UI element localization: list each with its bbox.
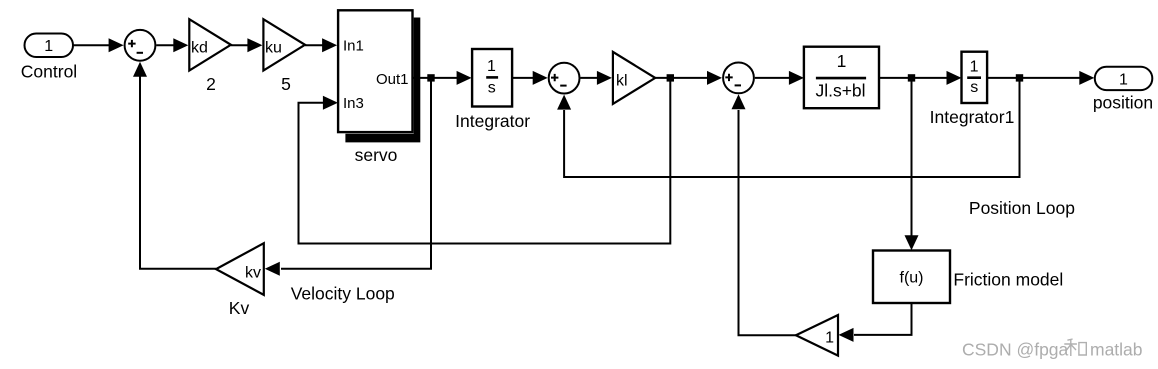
sum Sum2	[549, 63, 580, 94]
svg-text:1: 1	[825, 330, 834, 347]
wire Integrator to Sum2	[512, 77, 534, 79]
wire gain 1 output left and up to Sum3	[739, 110, 796, 335]
svg-text:kd: kd	[191, 39, 208, 56]
wire kd to gain ku	[231, 44, 249, 46]
svg-text:In3: In3	[343, 95, 364, 112]
arrowhead into outport	[1079, 71, 1094, 85]
wire In3 feedback: kl output down, left, up into servo In3	[299, 81, 671, 244]
svg-text:Friction model: Friction model	[953, 269, 1063, 289]
arrowhead into Sum1	[109, 38, 124, 52]
svg-text:s: s	[970, 79, 978, 96]
svg-text:Integrator: Integrator	[455, 111, 530, 131]
junction at kl output	[667, 74, 674, 81]
svg-text:f(u): f(u)	[900, 270, 924, 287]
gain ku	[263, 19, 305, 70]
subsystem servo (with drop shadow)	[338, 10, 420, 142]
svg-text:matlab: matlab	[1090, 339, 1143, 359]
gain kl	[613, 52, 655, 104]
arrowhead into Sum2 bottom	[557, 95, 571, 110]
wire Sum2 to gain kl	[580, 77, 599, 79]
wire f(u) output down and left to gain 1	[854, 303, 912, 335]
wire Sum3 to transfer fn	[755, 77, 790, 79]
svg-text:position: position	[1093, 92, 1153, 112]
svg-text:1: 1	[1119, 71, 1128, 88]
svg-text:s: s	[488, 79, 496, 96]
gain 1 (flipped)	[796, 315, 838, 356]
arrowhead into ku	[247, 38, 262, 52]
transfer function 1/(Jl.s+bl)	[804, 47, 879, 108]
svg-text:servo: servo	[355, 145, 398, 165]
svg-text:kl: kl	[616, 72, 628, 89]
fcn block f(u)	[873, 251, 950, 304]
integrator Integrator1	[962, 52, 988, 103]
arrowhead into transfer fn	[789, 71, 804, 85]
arrowhead into kl	[597, 71, 612, 85]
arrowhead into Sum2	[533, 71, 548, 85]
svg-text:CSDN @fpga: CSDN @fpga	[962, 339, 1069, 359]
arrowhead into servo In1	[322, 38, 337, 52]
svg-text:2: 2	[206, 74, 216, 94]
arrowhead into Integrator1	[947, 71, 962, 85]
outport 1 (position)	[1095, 67, 1153, 90]
junction at transfer fn output	[908, 74, 915, 81]
svg-text:Out1: Out1	[376, 71, 409, 88]
svg-text:5: 5	[281, 74, 291, 94]
svg-text:kv: kv	[245, 264, 261, 281]
wire velocity feedback: junction down and left to kv	[281, 81, 431, 269]
arrowhead into Integrator	[457, 71, 472, 85]
wire servo Out1 to Integrator	[413, 77, 459, 79]
svg-text:In1: In1	[343, 38, 364, 55]
wire friction feedback: junction down into f(u)	[911, 81, 913, 237]
arrowhead into Sum1 bottom	[133, 62, 147, 77]
svg-text:Position Loop: Position Loop	[969, 198, 1075, 218]
svg-text:Jl.s+bl: Jl.s+bl	[815, 81, 865, 101]
watermark CSDN @fpga和matlab	[962, 339, 1143, 359]
wire position feedback: Integrator1 output down, left, up into Sum2	[564, 81, 1019, 177]
inport 1 (Control)	[25, 34, 74, 58]
svg-text:Control: Control	[21, 61, 77, 81]
arrowhead into kd	[173, 38, 188, 52]
gain kd	[189, 19, 231, 70]
wire inport to Sum1	[73, 44, 110, 46]
arrowhead into Sum3 bottom	[732, 94, 746, 109]
svg-text:Integrator1: Integrator1	[930, 107, 1015, 127]
integrator Integrator	[472, 49, 512, 107]
svg-text:ku: ku	[265, 39, 282, 56]
arrowhead into Sum3	[707, 71, 722, 85]
svg-text:1: 1	[970, 58, 979, 75]
svg-text:1: 1	[837, 51, 847, 71]
sum Sum1	[125, 30, 156, 61]
svg-text:1: 1	[44, 38, 53, 55]
junction at Integrator1 output	[1016, 74, 1023, 81]
wire Integrator1 to outport	[987, 77, 1082, 79]
svg-text:1: 1	[487, 58, 496, 75]
wire transfer fn to Integrator1	[879, 77, 947, 79]
gain kv (flipped)	[216, 243, 264, 295]
arrowhead into f(u) top	[905, 235, 919, 250]
svg-text:Velocity Loop: Velocity Loop	[291, 283, 395, 303]
wire ku to servo In1	[305, 44, 324, 46]
wire Sum1 to gain kd	[156, 44, 175, 46]
arrowhead into servo In3	[323, 96, 338, 110]
sum Sum3	[723, 63, 754, 94]
junction at servo output	[427, 74, 434, 81]
wire kv output left and up to Sum1	[140, 76, 216, 269]
arrowhead into kv input	[265, 262, 280, 276]
wire kl to Sum3	[655, 77, 708, 79]
arrowhead into gain 1 input	[839, 328, 854, 342]
svg-text:Kv: Kv	[229, 298, 250, 318]
